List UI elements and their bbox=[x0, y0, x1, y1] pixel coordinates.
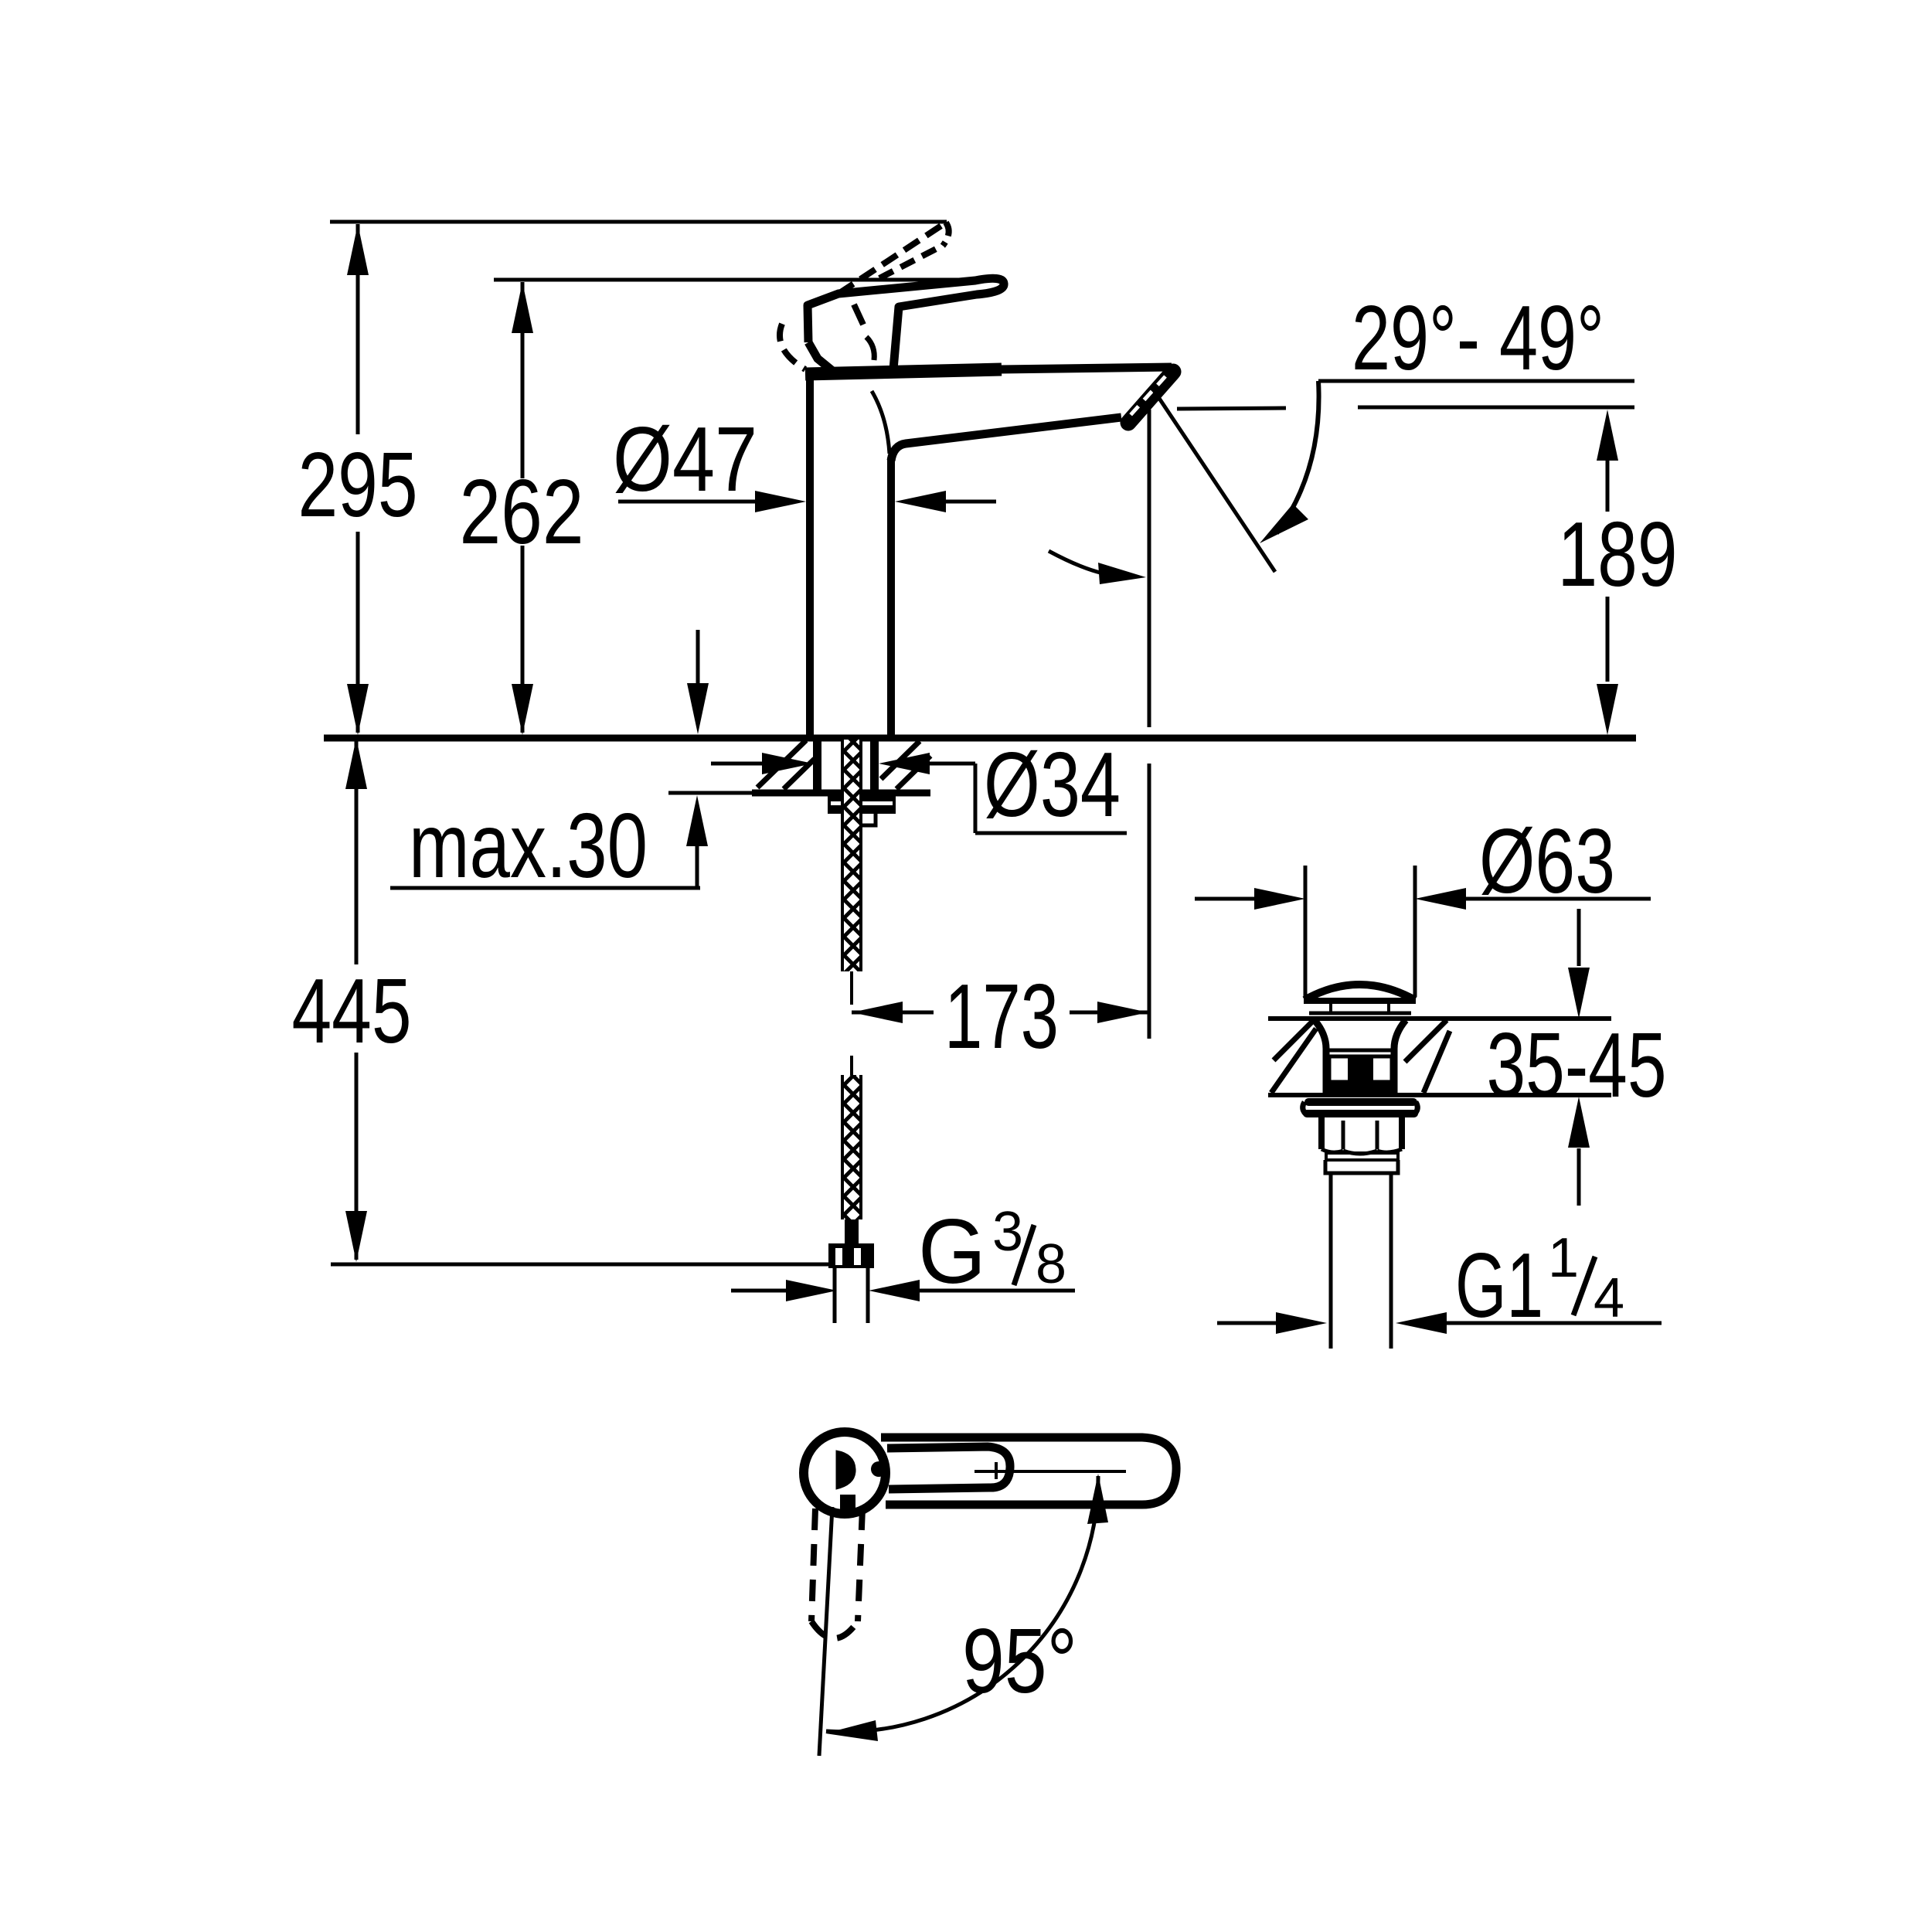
handle lever raised dashed tip arc bbox=[943, 223, 949, 246]
braided hose upper segment bbox=[842, 740, 861, 971]
handle pivot chamfer bbox=[808, 342, 835, 372]
angle range arc with arrowhead bbox=[1277, 381, 1319, 533]
svg-text:95°: 95° bbox=[962, 1610, 1077, 1713]
escutcheon bottom line bbox=[752, 790, 930, 797]
dimension 295 vertical line bbox=[356, 224, 360, 434]
hose end neck bbox=[845, 1219, 859, 1243]
svg-text:G: G bbox=[918, 1200, 986, 1303]
supply tube below nut bbox=[833, 1268, 837, 1323]
svg-text:35-45: 35-45 bbox=[1487, 1014, 1667, 1117]
swing axis thin line bbox=[819, 1507, 832, 1756]
plan view dot mark bbox=[871, 1461, 886, 1477]
drain body taper bbox=[1315, 1020, 1326, 1049]
spout stream diagonal line bbox=[1154, 390, 1275, 572]
dimension Ø34 right arrow and leader bbox=[879, 753, 930, 774]
dimension 445 arrows bbox=[345, 738, 367, 789]
plan view lever outline inner bbox=[887, 1447, 1010, 1489]
95 degree arc bbox=[826, 1476, 1098, 1732]
mounting nut below counter bbox=[828, 796, 896, 814]
svg-text:Ø47: Ø47 bbox=[613, 408, 757, 511]
plan view faucet body circle bbox=[804, 1432, 886, 1514]
dimension 189 arrows bbox=[1597, 410, 1618, 461]
dimension Ø47 line and arrows bbox=[618, 500, 765, 504]
counter hatch at drain right bbox=[1405, 1020, 1447, 1062]
262 reference line bbox=[494, 278, 1001, 282]
95 degree arc bottom arrowhead bbox=[825, 1720, 878, 1741]
angle reference line upper bbox=[1318, 379, 1634, 383]
faucet spout end face bbox=[1128, 372, 1173, 423]
svg-text:4: 4 bbox=[1594, 1267, 1624, 1329]
svg-text:3: 3 bbox=[992, 1201, 1023, 1263]
stream swivel curved arrow bbox=[1049, 551, 1125, 576]
dimension 262 arrows bbox=[512, 282, 533, 333]
dimension 295 arrows bbox=[347, 224, 369, 275]
drain ring below nut bbox=[1326, 1153, 1398, 1160]
counter hatch right of shank bbox=[881, 741, 920, 779]
handle lever raised dashed bottom edge bbox=[879, 245, 944, 278]
faucet spout top edge bbox=[1000, 367, 1172, 369]
faucet spout end face slits bbox=[1130, 376, 1165, 416]
plan view lever rotated dashed end arc bbox=[811, 1621, 858, 1638]
svg-text:262: 262 bbox=[460, 461, 584, 563]
drain dome cap bbox=[1304, 985, 1415, 1000]
faucet spout underside bbox=[891, 417, 1121, 461]
95 degree arc top arrowhead bbox=[1087, 1474, 1108, 1524]
counter hatch left of shank bbox=[757, 740, 806, 787]
handle raised dashed rear arc bbox=[780, 324, 805, 369]
mounting nut lower bracket bbox=[856, 814, 876, 825]
plan view lever centerline bbox=[975, 1470, 1126, 1473]
handle lever solid outline bbox=[808, 278, 1004, 369]
svg-text:295: 295 bbox=[298, 434, 418, 536]
dimension max.30 upper arrow above deck bbox=[696, 630, 700, 683]
dimension G1 1/4 line and arrows bbox=[1217, 1321, 1276, 1325]
faucet body left edge bbox=[806, 371, 814, 735]
drain tailpipe walls bbox=[1329, 1173, 1333, 1349]
dimension Ø63 line and arrows bbox=[1195, 897, 1255, 901]
svg-text:G1: G1 bbox=[1455, 1234, 1543, 1337]
dimension 173 line segments bbox=[852, 1011, 934, 1015]
dimension max.30 underline bbox=[390, 886, 700, 890]
spout tip projection line bbox=[1148, 410, 1151, 727]
mounting shank left wall bbox=[813, 740, 821, 791]
svg-text:173: 173 bbox=[944, 965, 1059, 1068]
braided hose lower segment bbox=[842, 1075, 861, 1219]
svg-text:max.30: max.30 bbox=[409, 794, 648, 897]
plan view lever outline outer bbox=[881, 1437, 1176, 1505]
svg-text:Ø63: Ø63 bbox=[1479, 810, 1615, 913]
dimension 445 vertical line bbox=[355, 740, 359, 964]
hose nut G3/8 bbox=[828, 1243, 874, 1268]
faucet body right edge bbox=[887, 457, 895, 735]
counter section top line at drain bbox=[1268, 1016, 1611, 1021]
dimension max.30 lower arrow bbox=[696, 844, 699, 888]
drain flange below counter bbox=[1308, 1098, 1413, 1106]
dimension 173 arrows bbox=[852, 1002, 903, 1023]
svg-text:1: 1 bbox=[1548, 1227, 1579, 1289]
svg-text:Ø34: Ø34 bbox=[984, 733, 1121, 836]
faucet body top band bbox=[805, 369, 1002, 374]
svg-text:189: 189 bbox=[1558, 503, 1678, 606]
drain Ø63 extension lines bbox=[1304, 866, 1308, 997]
plan view lever rotated dashed sides bbox=[811, 1509, 815, 1621]
445 bottom reference line bbox=[331, 1263, 830, 1267]
counter underside reference line bbox=[668, 791, 753, 795]
counter section bottom line at drain bbox=[1268, 1093, 1611, 1097]
faucet neck inner curve bbox=[872, 391, 889, 454]
mounting shank right wall bbox=[870, 740, 879, 791]
angle reference line lower bbox=[1177, 408, 1286, 409]
countertop deck line bbox=[324, 735, 1636, 742]
dimension 35-45 lower arrow bbox=[1577, 1148, 1581, 1206]
plan view cartridge D mark bbox=[836, 1451, 855, 1489]
handle cartridge detail ticks bbox=[854, 304, 863, 325]
295 top reference line bbox=[330, 220, 947, 224]
dimension Ø34 left arrow bbox=[711, 762, 768, 766]
handle lever raised dashed top edge bbox=[838, 223, 946, 294]
counter hatch at drain left bbox=[1274, 1020, 1314, 1060]
drain body inner lines and windows bbox=[1326, 1049, 1394, 1053]
plan view square mark bbox=[840, 1495, 855, 1509]
svg-text:29°- 49°: 29°- 49° bbox=[1352, 287, 1604, 389]
svg-text:445: 445 bbox=[292, 960, 412, 1063]
drain hex nut bbox=[1318, 1117, 1325, 1149]
dimension 189 vertical line bbox=[1606, 461, 1610, 512]
dimension 262 vertical line bbox=[521, 282, 525, 478]
dimension G3/8 line and arrows bbox=[731, 1289, 786, 1293]
hose centerline tails at break bbox=[850, 971, 853, 1005]
svg-text:8: 8 bbox=[1036, 1233, 1066, 1295]
dimension 35-45 upper arrow bbox=[1577, 909, 1581, 966]
drain body walls bbox=[1323, 1049, 1330, 1095]
drain threaded collar bbox=[1325, 1160, 1398, 1173]
